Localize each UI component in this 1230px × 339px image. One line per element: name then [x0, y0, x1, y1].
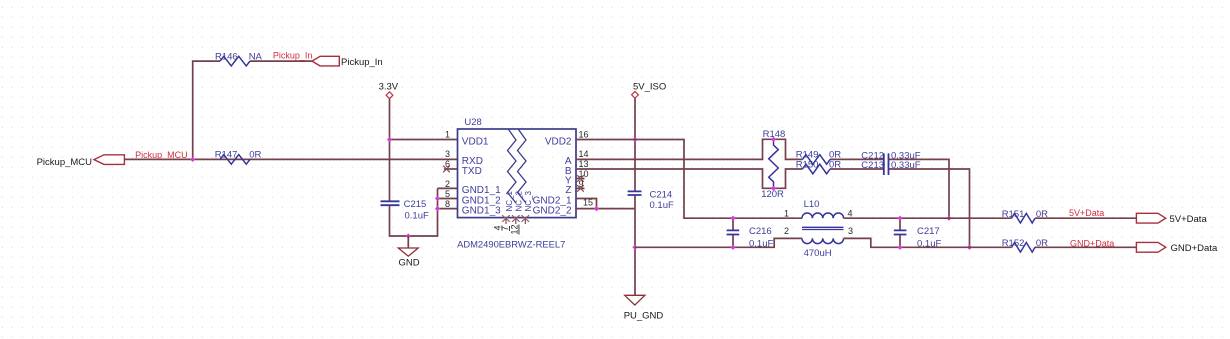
junction R148 bottom	[771, 186, 776, 191]
port Pickup_MCU	[94, 155, 124, 165]
resistor R152	[1002, 238, 1048, 252]
junction 5V_ISO / VDD2	[632, 137, 637, 142]
resistor R151	[1002, 209, 1048, 223]
svg-text:U28: U28	[464, 117, 481, 128]
wire GND1 pin stubs	[438, 188, 458, 208]
wire B net pin 13 with detour under R148	[576, 169, 970, 247]
svg-text:Pickup_MCU: Pickup_MCU	[37, 157, 93, 168]
wire GND2 pins 15/12	[576, 199, 635, 209]
junction at R146 branch	[190, 157, 195, 162]
svg-text:5V+Data: 5V+Data	[1170, 214, 1208, 225]
wire A net pin 14 with detour over R148	[576, 139, 949, 218]
svg-text:0.1uF: 0.1uF	[650, 200, 674, 211]
svg-text:GND+Data: GND+Data	[1070, 238, 1114, 248]
svg-text:3: 3	[445, 149, 450, 159]
junction R148 top	[771, 137, 776, 142]
no-connect X on TXD pin 6	[443, 166, 457, 173]
svg-text:GND+Data: GND+Data	[1171, 243, 1218, 254]
svg-text:C216: C216	[749, 226, 772, 237]
pin names left	[462, 136, 501, 216]
svg-text:0R: 0R	[1036, 209, 1048, 220]
svg-text:C215: C215	[404, 199, 427, 210]
svg-text:2: 2	[784, 226, 789, 236]
junction A net to data row	[946, 216, 951, 221]
svg-text:VDD2: VDD2	[545, 136, 572, 147]
port Pickup_In	[312, 56, 339, 66]
junction B net to gnd row	[967, 245, 972, 250]
wire VDD2 pin 16 across and down	[576, 140, 802, 219]
svg-text:NC_2: NC_2	[515, 190, 524, 211]
resistor R148	[761, 129, 785, 200]
inductor L10 common-mode choke	[784, 199, 853, 259]
no-connect X on pin Z	[576, 185, 585, 192]
svg-text:C213: C213	[861, 160, 884, 171]
svg-text:C214: C214	[650, 189, 673, 200]
svg-text:C217: C217	[917, 226, 940, 237]
wire 3.3V rail down through C215	[390, 99, 438, 236]
svg-text:VDD1: VDD1	[462, 136, 489, 147]
power 5V_ISO	[632, 82, 667, 99]
capacitor C217	[894, 218, 942, 249]
svg-text:3: 3	[848, 226, 853, 236]
wire 5V_ISO rail down through C214 to PU_GND	[634, 98, 636, 295]
svg-text:0R: 0R	[829, 160, 841, 171]
svg-text:Pickup_In: Pickup_In	[341, 57, 383, 68]
svg-text:0.1uF: 0.1uF	[749, 238, 773, 249]
svg-text:0.33uF: 0.33uF	[891, 160, 921, 171]
svg-text:PU_GND: PU_GND	[624, 311, 664, 322]
svg-text:Pickup_MCU: Pickup_MCU	[135, 150, 188, 160]
capacitor C216	[727, 218, 774, 249]
svg-text:R146: R146	[215, 51, 238, 62]
capacitor C215	[381, 199, 429, 221]
svg-text:0R: 0R	[249, 150, 261, 161]
svg-text:R147: R147	[215, 150, 238, 161]
wire VDD1 pin 1	[390, 139, 458, 141]
svg-text:470uH: 470uH	[804, 248, 832, 259]
port GND+Data	[1136, 242, 1218, 254]
svg-text:0R: 0R	[1036, 238, 1048, 249]
svg-text:Pickup_In: Pickup_In	[273, 50, 313, 60]
svg-text:R152: R152	[1002, 238, 1025, 249]
svg-text:8: 8	[445, 199, 450, 209]
svg-text:L10: L10	[804, 199, 820, 210]
IC U28 ADM2490EBRWZ-REEL7	[457, 117, 576, 249]
svg-text:5V_ISO: 5V_ISO	[633, 82, 666, 93]
svg-text:NC_1: NC_1	[505, 190, 514, 211]
capacitor C212	[861, 150, 920, 165]
wire bottom ground row with L10 jog	[635, 238, 1136, 247]
pin numbers left	[445, 129, 450, 209]
junction C217 top	[897, 216, 902, 221]
junction GND1_3	[435, 206, 440, 211]
wire L10 row to R151 and port	[844, 217, 1137, 219]
capacitor C214	[628, 189, 674, 211]
svg-text:0.1uF: 0.1uF	[405, 210, 429, 221]
svg-text:120R: 120R	[761, 189, 784, 200]
svg-text:GND2_2: GND2_2	[533, 205, 572, 216]
svg-text:GND1_3: GND1_3	[462, 205, 501, 216]
wire branch up to R146 and Pickup_In	[193, 61, 312, 159]
wire Pickup_MCU to RXD pin 3	[124, 158, 457, 160]
junction C217 bottom	[897, 245, 902, 250]
svg-text:NA: NA	[249, 51, 263, 62]
resistor R147	[220, 155, 250, 165]
junction GND2 pins	[594, 206, 599, 211]
svg-text:2: 2	[445, 179, 450, 189]
pin names right	[533, 136, 572, 216]
ground GND	[398, 236, 419, 269]
svg-text:5: 5	[445, 189, 450, 199]
no-connect X on pin Y	[576, 175, 585, 182]
isolation barrier zigzag	[508, 130, 527, 204]
svg-text:GND: GND	[399, 258, 420, 269]
junction C216 bottom	[730, 245, 735, 250]
pin NC_1 NC_2 NC_3 vertical labels	[505, 190, 533, 211]
svg-text:3.3V: 3.3V	[379, 81, 399, 92]
svg-text:16: 16	[579, 129, 589, 139]
port 5V+Data	[1136, 213, 1207, 225]
junction PU_GND row	[632, 245, 637, 250]
svg-text:5V+Data: 5V+Data	[1069, 208, 1104, 218]
svg-text:ADM2490EBRWZ-REEL7: ADM2490EBRWZ-REEL7	[457, 238, 565, 249]
svg-text:R150: R150	[796, 160, 819, 171]
svg-text:7: 7	[500, 226, 510, 231]
svg-text:1: 1	[784, 209, 789, 219]
svg-text:R151: R151	[1002, 209, 1025, 220]
pin numbers right	[579, 129, 594, 207]
capacitor C213	[861, 160, 920, 175]
power 3.3V	[379, 81, 399, 98]
svg-text:0.1uF: 0.1uF	[917, 238, 941, 249]
junction GND1_2	[435, 196, 440, 201]
svg-text:1: 1	[445, 129, 450, 139]
ground PU_GND	[624, 295, 664, 321]
resistor R150	[796, 160, 842, 174]
svg-text:13: 13	[579, 159, 589, 169]
resistor R146	[220, 56, 250, 66]
svg-text:6: 6	[445, 159, 450, 169]
svg-text:4: 4	[848, 209, 853, 219]
svg-text:TXD: TXD	[462, 166, 482, 177]
junction GND node	[406, 233, 411, 238]
resistor R149	[796, 149, 842, 164]
svg-text:12: 12	[510, 224, 520, 234]
junction 3.3V / VDD1	[387, 137, 392, 142]
bottom pins 4 7 12 with no-connect X	[493, 215, 530, 234]
svg-text:14: 14	[579, 149, 589, 159]
junction C216 top	[730, 216, 735, 221]
svg-text:NC_3: NC_3	[524, 190, 533, 211]
